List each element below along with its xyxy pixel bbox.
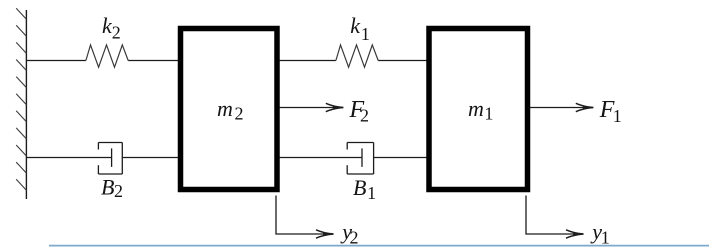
wire spring k2 to mass m2 [128, 60, 178, 62]
wire mass m2 to damper B1 piston [280, 157, 363, 159]
svg-text:B: B [101, 174, 114, 199]
svg-text:1: 1 [601, 228, 610, 248]
label F1 [599, 97, 622, 126]
label y1 [590, 219, 610, 248]
label B2 [101, 174, 123, 201]
svg-text:1: 1 [361, 24, 370, 44]
force arrow F1 [530, 103, 593, 111]
wall [25, 10, 27, 199]
label B1 [353, 175, 376, 203]
label F2 [349, 97, 370, 126]
displacement arrow y1 [526, 196, 584, 239]
svg-text:m: m [217, 96, 233, 121]
bottom blue rule [49, 245, 709, 247]
svg-text:2: 2 [235, 104, 244, 124]
label m1 [468, 96, 493, 124]
damper B2 [98, 143, 122, 175]
svg-text:k: k [350, 13, 361, 38]
damper B1 [347, 143, 373, 175]
mass m2 [181, 29, 278, 190]
wire wall to spring k2 [26, 60, 86, 62]
svg-text:m: m [468, 96, 484, 121]
spring k2 [86, 45, 128, 67]
wire damper B1 to mass m1 [374, 157, 427, 159]
label k2 [102, 13, 121, 43]
svg-text:2: 2 [114, 181, 123, 201]
label k1 [350, 13, 370, 44]
svg-text:2: 2 [112, 23, 121, 43]
mass m1 [429, 29, 528, 190]
wire damper B2 to mass m2 [122, 157, 178, 159]
svg-text:B: B [353, 175, 366, 200]
svg-text:2: 2 [360, 105, 369, 125]
svg-text:1: 1 [613, 106, 622, 126]
spring k1 [336, 45, 378, 67]
label m2 [217, 96, 244, 124]
svg-text:1: 1 [367, 183, 376, 203]
label y2 [340, 219, 358, 248]
wire wall to damper B2 piston [26, 157, 111, 159]
wire mass m2 to spring k1 [280, 60, 336, 62]
svg-text:2: 2 [350, 228, 359, 248]
force arrow F2 [280, 103, 344, 111]
displacement arrow y2 [276, 196, 334, 239]
wire spring k1 to mass m1 [378, 60, 426, 62]
svg-text:1: 1 [484, 104, 493, 124]
wall hatching [16, 8, 26, 190]
